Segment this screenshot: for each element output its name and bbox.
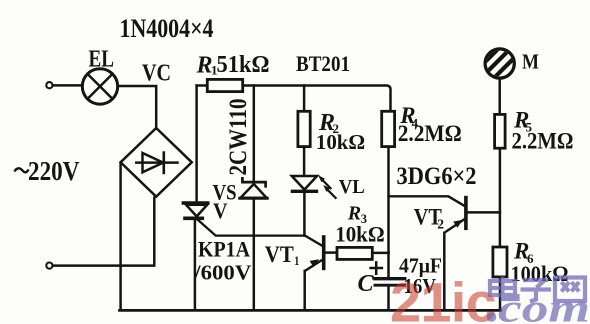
- svg-text:1: 1: [294, 253, 299, 268]
- svg-text:21ic: 21ic: [390, 271, 496, 324]
- svg-text:R: R: [196, 53, 213, 79]
- svg-text:2.2MΩ: 2.2MΩ: [512, 128, 574, 154]
- svg-text:V: V: [213, 198, 228, 223]
- svg-text:com: com: [498, 286, 590, 324]
- svg-text:3DG6×2: 3DG6×2: [397, 161, 477, 190]
- svg-text:/600V: /600V: [193, 261, 252, 285]
- svg-text:VC: VC: [142, 60, 171, 87]
- svg-text:51kΩ: 51kΩ: [217, 52, 270, 78]
- svg-text:2: 2: [437, 217, 444, 232]
- svg-text:KP1A: KP1A: [198, 236, 251, 261]
- svg-text:1N4004×4: 1N4004×4: [120, 14, 214, 43]
- svg-text:220V: 220V: [28, 156, 80, 186]
- svg-text:2CW110: 2CW110: [225, 99, 252, 176]
- svg-text:M: M: [522, 49, 539, 73]
- svg-text:10kΩ: 10kΩ: [335, 222, 385, 247]
- svg-text:10kΩ: 10kΩ: [316, 130, 365, 154]
- svg-text:VT: VT: [265, 242, 294, 267]
- svg-text:2.2MΩ: 2.2MΩ: [398, 121, 462, 147]
- svg-text:VL: VL: [339, 177, 365, 198]
- svg-text:EL: EL: [89, 46, 115, 73]
- svg-text:C: C: [358, 271, 375, 297]
- svg-text:BT201: BT201: [296, 51, 350, 76]
